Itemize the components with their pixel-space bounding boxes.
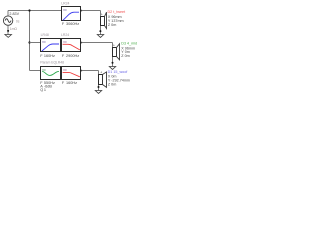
node junction top <box>28 9 30 11</box>
svg-text:BR: BR <box>63 8 67 12</box>
svg-text:BR: BR <box>63 68 67 72</box>
svg-text:Q1: Q1 <box>40 88 46 92</box>
wire row2 tap <box>30 42 41 44</box>
svg-text:+: + <box>113 43 115 47</box>
svg-text:2.83V: 2.83V <box>9 12 19 16</box>
svg-text:Z 0m: Z 0m <box>121 54 129 58</box>
speaker D1 woofer <box>98 71 107 91</box>
svg-text:LR48: LR48 <box>56 61 64 65</box>
node junction row2 <box>28 41 30 43</box>
ground mid <box>109 67 115 70</box>
svg-text:+: + <box>101 12 103 16</box>
wire main horizontal <box>8 10 61 12</box>
filter block LR24 mid LP <box>62 39 81 52</box>
filter block LR24 tweeter HP <box>62 7 81 21</box>
svg-text:0s: 0s <box>16 20 20 24</box>
svg-text:D3 4_mid: D3 4_mid <box>121 41 137 45</box>
svg-text:1mΩ: 1mΩ <box>10 27 18 31</box>
speaker D2 tweeter <box>99 11 106 35</box>
pin dot row3 out <box>81 70 83 72</box>
wire mid <box>82 42 113 44</box>
svg-text:Z 0m: Z 0m <box>108 83 116 87</box>
svg-text:Param EQ: Param EQ <box>40 61 56 65</box>
wire row3 tap <box>30 70 41 72</box>
speaker D3 mid <box>112 43 120 67</box>
svg-text:BR: BR <box>63 40 67 44</box>
ground generator <box>5 35 12 38</box>
ground tweeter <box>97 35 103 38</box>
ground woofer <box>95 91 101 94</box>
svg-text:LR24: LR24 <box>61 33 69 37</box>
wire tweeter <box>82 10 101 12</box>
svg-text:LR24: LR24 <box>61 1 69 5</box>
filter block Param EQ woofer <box>41 67 61 80</box>
filter block LR48 mid HP <box>41 39 61 52</box>
pin dot row1 out <box>81 10 83 12</box>
wire vertical bus <box>29 11 31 71</box>
svg-text:D2 t_tweet: D2 t_tweet <box>108 10 126 14</box>
svg-text:Z 0m: Z 0m <box>108 23 116 27</box>
svg-text:LR48: LR48 <box>41 33 49 37</box>
pin dot row2 out <box>81 42 83 44</box>
svg-text:F160Hz: F160Hz <box>62 81 77 85</box>
svg-text:BR: BR <box>42 40 46 44</box>
svg-text:F160Hz: F160Hz <box>40 54 55 58</box>
generator G1 <box>3 11 12 35</box>
filter block LR48 woofer LP <box>62 67 81 80</box>
wire woofer <box>82 70 99 72</box>
svg-text:+: + <box>100 71 102 75</box>
